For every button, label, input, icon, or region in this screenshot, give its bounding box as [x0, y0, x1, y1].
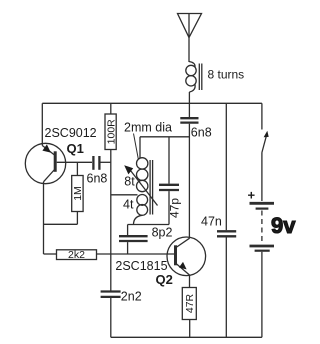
svg-text:1M: 1M [72, 186, 84, 201]
svg-text:Q2: Q2 [156, 272, 173, 287]
resistor 47R [182, 288, 196, 338]
resistor 1M [72, 162, 84, 224]
wire tank bottom [128, 224, 169, 226]
wire tank top [140, 136, 189, 138]
resistor 2k2 [44, 249, 97, 261]
svg-text:6n8: 6n8 [87, 172, 108, 186]
svg-text:Q1: Q1 [67, 141, 84, 156]
wire coil tap [111, 194, 138, 196]
svg-text:100R: 100R [105, 119, 117, 145]
wire Q1 base to capacitor [57, 161, 92, 163]
svg-text:2SC1815: 2SC1815 [115, 259, 167, 273]
svg-text:8 turns: 8 turns [208, 68, 245, 82]
wire base line 2k2 to Q2 base [97, 253, 175, 255]
wire Q1 collector column [43, 182, 45, 254]
inductor L2 core bars [150, 160, 153, 215]
antenna [178, 14, 202, 63]
tuning arrow across coil [124, 165, 157, 205]
switch S1 [262, 103, 269, 201]
capacitor 8p2 [119, 225, 148, 255]
svg-text:47R: 47R [184, 293, 196, 313]
transistor Q1 2SC9012 [25, 103, 65, 183]
svg-text:9v: 9v [271, 213, 296, 238]
svg-text:2k2: 2k2 [68, 249, 85, 261]
svg-text:2mm dia: 2mm dia [124, 121, 172, 135]
wire 1M bottom to Q1 collector column [44, 223, 78, 225]
capacitor 47p [159, 137, 182, 225]
battery 9V [248, 188, 275, 338]
capacitor C1 6n8 coupling [93, 156, 110, 170]
inductor L1 8 turns antenna coil [186, 62, 196, 93]
capacitor 47n [217, 103, 236, 337]
svg-text:47n: 47n [201, 214, 222, 228]
svg-text:+: + [248, 188, 256, 203]
wire 100R bottom down to base line [110, 150, 112, 255]
transistor Q2 2SC1815 [167, 237, 206, 288]
wire antenna coil to rail junction [188, 92, 190, 103]
leader line 2mm dia to coil [134, 134, 139, 160]
svg-text:47p: 47p [168, 198, 182, 218]
svg-text:8t: 8t [124, 174, 135, 188]
capacitor C2 6n8 output [180, 103, 198, 122]
inductor L1 core bars [199, 64, 202, 91]
wire top +9V rail [42, 102, 262, 104]
wire Q2 collector column [188, 124, 190, 239]
svg-text:2n2: 2n2 [121, 289, 142, 303]
svg-text:2SC9012: 2SC9012 [45, 126, 97, 140]
wire bottom ground rail [111, 336, 262, 338]
svg-text:6n8: 6n8 [191, 126, 212, 140]
inductor L2 tank coil [134, 137, 148, 225]
capacitor 2n2 [101, 254, 121, 337]
svg-text:8p2: 8p2 [152, 225, 173, 239]
resistor 100R [105, 103, 117, 149]
svg-text:4t: 4t [123, 197, 134, 211]
